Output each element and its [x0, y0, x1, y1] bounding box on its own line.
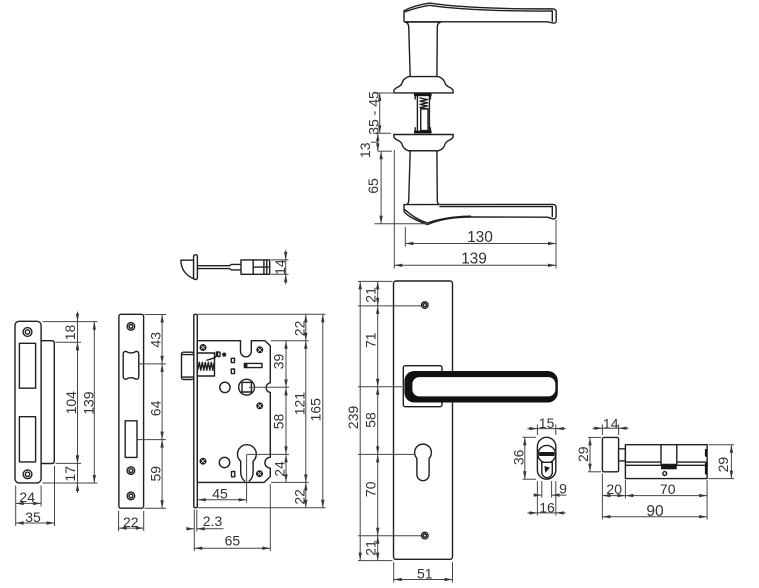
thumbturn dim 15: [527, 415, 565, 435]
escutcheon keyhole: [415, 444, 432, 481]
svg-text:21: 21: [362, 540, 378, 556]
strike dim 17: [62, 453, 79, 493]
cylinder dim 90: [602, 499, 707, 520]
cylinder pin hole: [663, 472, 667, 476]
thumbturn keyhole profile: [542, 462, 553, 477]
escutcheon handle bar: [404, 371, 557, 403]
svg-text:35: 35: [25, 509, 41, 525]
cylinder dim 29 right: [709, 445, 735, 479]
svg-text:14: 14: [603, 415, 619, 431]
lock dim 2.3: [186, 510, 223, 532]
svg-text:71: 71: [362, 332, 378, 348]
lock small rect hole: [232, 472, 235, 477]
svg-text:65: 65: [225, 533, 241, 549]
lock guide hole upper: [220, 382, 230, 392]
lock latch spring box: [197, 353, 216, 376]
svg-text:13: 13: [357, 142, 373, 158]
lock pin dot: [223, 353, 226, 356]
lock follower: [239, 379, 255, 395]
thumbturn dim 9: [534, 480, 568, 497]
lock detent part: [216, 351, 220, 356]
strike cutout lower: [19, 417, 35, 462]
svg-text:59: 59: [147, 466, 163, 482]
faceplate latch cutout: [123, 351, 139, 379]
escutcheon extension lines: [358, 281, 421, 560]
strike dim 35: [16, 466, 55, 526]
top rose: [394, 77, 453, 93]
svg-text:165: 165: [307, 398, 323, 422]
lock latch bolt: [182, 352, 194, 379]
latch bolt head side view: [181, 260, 194, 279]
svg-text:29: 29: [575, 446, 591, 462]
lock dim 65: [194, 484, 270, 551]
faceplate screw hole bottom: [127, 492, 135, 500]
strike screw hole bottom: [23, 470, 32, 479]
faceplate screw hole top: [127, 323, 135, 331]
cylinder dim 70: [625, 480, 707, 519]
cylinder dim 29 left: [575, 437, 601, 471]
lock screw C: [257, 403, 263, 409]
strike plate body: [15, 321, 41, 483]
escutcheon dim 71: [362, 306, 379, 387]
svg-text:239: 239: [345, 406, 361, 430]
svg-text:130: 130: [467, 229, 493, 246]
lock screw A: [200, 345, 206, 351]
cylinder keyway marks: [705, 450, 707, 474]
faceplate dim 43: [147, 315, 163, 364]
svg-text:70: 70: [362, 481, 378, 497]
latch tail piece: [253, 260, 270, 274]
strike plate lip: [41, 341, 54, 464]
lock dim 22 bottom: [291, 482, 307, 507]
handle dim 130: [405, 227, 556, 247]
faceplate extension lines: [138, 315, 167, 509]
escutcheon plate: [394, 281, 453, 559]
svg-text:58: 58: [271, 414, 287, 430]
svg-text:20: 20: [606, 481, 622, 497]
svg-text:24: 24: [19, 489, 35, 505]
faceplate dim 59: [147, 440, 163, 509]
lock square hole upper: [231, 358, 234, 362]
svg-text:90: 90: [646, 503, 664, 520]
bottom rose: [394, 135, 453, 151]
svg-text:17: 17: [62, 466, 78, 482]
lock dim 24: [271, 454, 287, 482]
strike dim 18: [62, 312, 79, 353]
cylinder cam: [661, 445, 677, 470]
escutcheon dim 58: [362, 387, 379, 455]
handle dim 139: [394, 150, 556, 269]
bottom handle neck: [405, 151, 441, 206]
thumbturn dim 36: [510, 437, 536, 479]
lock square hole lower: [231, 369, 234, 374]
svg-text:36: 36: [510, 449, 526, 465]
thumbturn cylinder face circle: [538, 445, 556, 463]
lock cylinder hole: [238, 445, 257, 481]
spindle square bar: [421, 109, 428, 131]
svg-text:121: 121: [291, 392, 307, 416]
lock extension lines right: [198, 314, 326, 507]
faceplate body: [119, 314, 144, 508]
svg-text:70: 70: [660, 481, 676, 497]
svg-text:24: 24: [271, 461, 287, 477]
svg-text:104: 104: [63, 391, 79, 415]
svg-text:43: 43: [147, 332, 163, 348]
svg-text:58: 58: [362, 412, 378, 428]
strike screw hole top: [23, 328, 32, 337]
svg-text:35 - 45: 35 - 45: [365, 91, 381, 135]
lock dim 121: [291, 341, 307, 483]
svg-text:139: 139: [81, 391, 97, 415]
escutcheon dim 51: [394, 562, 453, 583]
escutcheon dim 239: [345, 281, 362, 560]
svg-text:45: 45: [212, 485, 228, 501]
svg-text:16: 16: [539, 499, 555, 515]
escutcheon dim 70: [362, 454, 379, 535]
lock screw D: [200, 458, 206, 464]
bottom lever handle grip: [404, 204, 556, 224]
cylinder thumbturn knob: [602, 437, 618, 471]
lock dim 22 top: [291, 314, 307, 340]
faceplate deadbolt cutout: [125, 421, 137, 458]
svg-text:15: 15: [539, 415, 555, 431]
lock case outline: [197, 341, 270, 483]
lock screw E: [257, 471, 263, 477]
svg-text:51: 51: [417, 566, 433, 582]
lock guide hole lower: [219, 457, 229, 467]
cylinder dim 20: [602, 473, 625, 498]
lock dim 165: [307, 314, 324, 507]
strike cutout upper: [19, 343, 35, 388]
handle dim 65: [365, 151, 430, 224]
lock dim 39: [271, 341, 288, 388]
svg-text:9: 9: [559, 480, 567, 496]
spindle bottom collar: [414, 128, 432, 134]
spindle spring: [420, 98, 428, 109]
top lever handle grip: [404, 3, 556, 23]
escutcheon dim 21 bottom: [362, 536, 379, 561]
svg-text:2.3: 2.3: [203, 513, 223, 529]
svg-text:21: 21: [362, 287, 378, 303]
svg-text:65: 65: [365, 178, 381, 194]
spindle top collar: [414, 93, 432, 99]
escutcheon dim 21 top: [362, 281, 379, 306]
svg-text:18: 18: [62, 325, 78, 341]
svg-text:22: 22: [291, 320, 307, 336]
latch spindle block: [241, 260, 253, 274]
thumbturn slot: [539, 452, 555, 456]
lock faceplate strip: [194, 314, 198, 507]
lock dim 45: [198, 485, 247, 501]
svg-text:29: 29: [715, 457, 731, 473]
svg-text:14: 14: [272, 259, 288, 275]
escutcheon screw top: [422, 302, 429, 309]
faceplate screw hole mid: [127, 467, 135, 475]
svg-text:64: 64: [147, 400, 163, 416]
svg-text:22: 22: [291, 489, 307, 505]
latch dim 14: [271, 250, 289, 284]
top handle neck: [405, 22, 441, 77]
faceplate dim 64: [147, 364, 163, 440]
svg-text:39: 39: [271, 354, 287, 370]
strike dim 104: [63, 342, 79, 463]
spindle rods: [417, 96, 429, 130]
handle dim 35-45: [365, 91, 394, 135]
strike extension lines: [43, 322, 98, 483]
cylinder body: [625, 445, 707, 479]
strike dim 24: [16, 486, 41, 507]
lock screw B: [257, 347, 263, 353]
latch faceplate cross-section: [194, 255, 198, 280]
faceplate dim 22: [119, 511, 144, 531]
svg-text:22: 22: [123, 514, 139, 530]
cylinder connector: [619, 449, 626, 461]
thumbturn oval escutcheon: [537, 437, 555, 479]
cylinder dim 14: [592, 415, 628, 435]
thumbturn dim 16: [527, 481, 565, 516]
lock dim 58: [271, 387, 288, 454]
strike dim 139: [81, 322, 97, 483]
lock slot: [244, 363, 262, 367]
escutcheon screw bottom: [422, 532, 429, 539]
latch shaft: [197, 264, 241, 270]
svg-text:139: 139: [461, 251, 487, 268]
escutcheon handle base: [403, 366, 442, 407]
handle dim 13: [357, 133, 392, 158]
